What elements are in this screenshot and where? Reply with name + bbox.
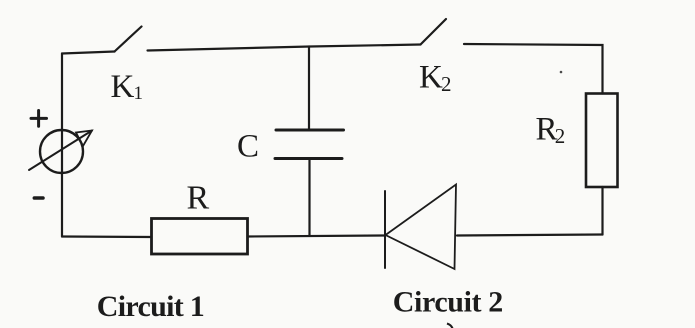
svg-text:Circuit 2: Circuit 2	[393, 286, 503, 319]
svg-text:K: K	[419, 60, 443, 96]
svg-text:K: K	[111, 69, 135, 105]
svg-text:2: 2	[441, 72, 452, 96]
svg-text:2: 2	[555, 124, 566, 148]
svg-text:Circuit 1: Circuit 1	[97, 290, 204, 323]
svg-text:1: 1	[134, 83, 144, 104]
svg-text:R: R	[187, 180, 210, 217]
svg-text:C: C	[237, 129, 259, 165]
